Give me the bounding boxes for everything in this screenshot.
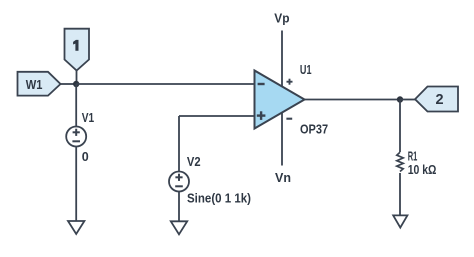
- svg-text:U1: U1: [300, 63, 312, 77]
- wire node to V1: [75, 84, 77, 127]
- voltage source V1: [66, 111, 94, 164]
- wire V1 to ground: [75, 147, 77, 222]
- ground (V2): [171, 221, 187, 234]
- svg-text:2: 2: [436, 92, 444, 108]
- resistor R1: [397, 149, 437, 177]
- wire op-amp noninverting input horizontal: [179, 115, 255, 117]
- port tag 2: [415, 87, 458, 112]
- ground (R1): [393, 215, 407, 227]
- wire V2 to ground: [178, 192, 180, 222]
- port tag W1: [18, 72, 61, 96]
- wire op-amp output: [305, 99, 401, 101]
- node junction A: [73, 81, 79, 87]
- op-amp U1: [255, 63, 329, 136]
- svg-text:V2: V2: [187, 155, 201, 169]
- wire R1 to ground: [399, 173, 401, 215]
- wire node to tag 2: [400, 99, 415, 101]
- svg-text:V1: V1: [82, 111, 94, 125]
- svg-text:Vp: Vp: [274, 11, 290, 25]
- svg-text:0: 0: [82, 150, 89, 164]
- svg-text:R1: R1: [408, 149, 418, 163]
- port tag 1: [65, 29, 90, 71]
- wire node to op-amp inverting input: [76, 83, 254, 85]
- wire node to R1: [399, 100, 401, 153]
- Vp supply wire: [281, 31, 283, 87]
- svg-text:Vn: Vn: [275, 171, 291, 185]
- node junction B: [397, 96, 403, 102]
- svg-text:10 kΩ: 10 kΩ: [408, 163, 437, 177]
- ground (V1): [68, 221, 84, 234]
- wire tag1 to node: [76, 71, 78, 85]
- op-amp negative supply pin mark: [286, 118, 292, 120]
- svg-text:W1: W1: [26, 78, 43, 92]
- wire W1 to node: [61, 83, 77, 85]
- Vn supply wire: [281, 113, 283, 166]
- op-amp positive supply pin mark: [287, 79, 293, 85]
- svg-text:OP37: OP37: [300, 122, 328, 136]
- voltage source V2: [169, 155, 251, 206]
- svg-text:Sine(0 1 1k): Sine(0 1 1k): [187, 192, 251, 206]
- wire V2 vertical: [178, 116, 180, 172]
